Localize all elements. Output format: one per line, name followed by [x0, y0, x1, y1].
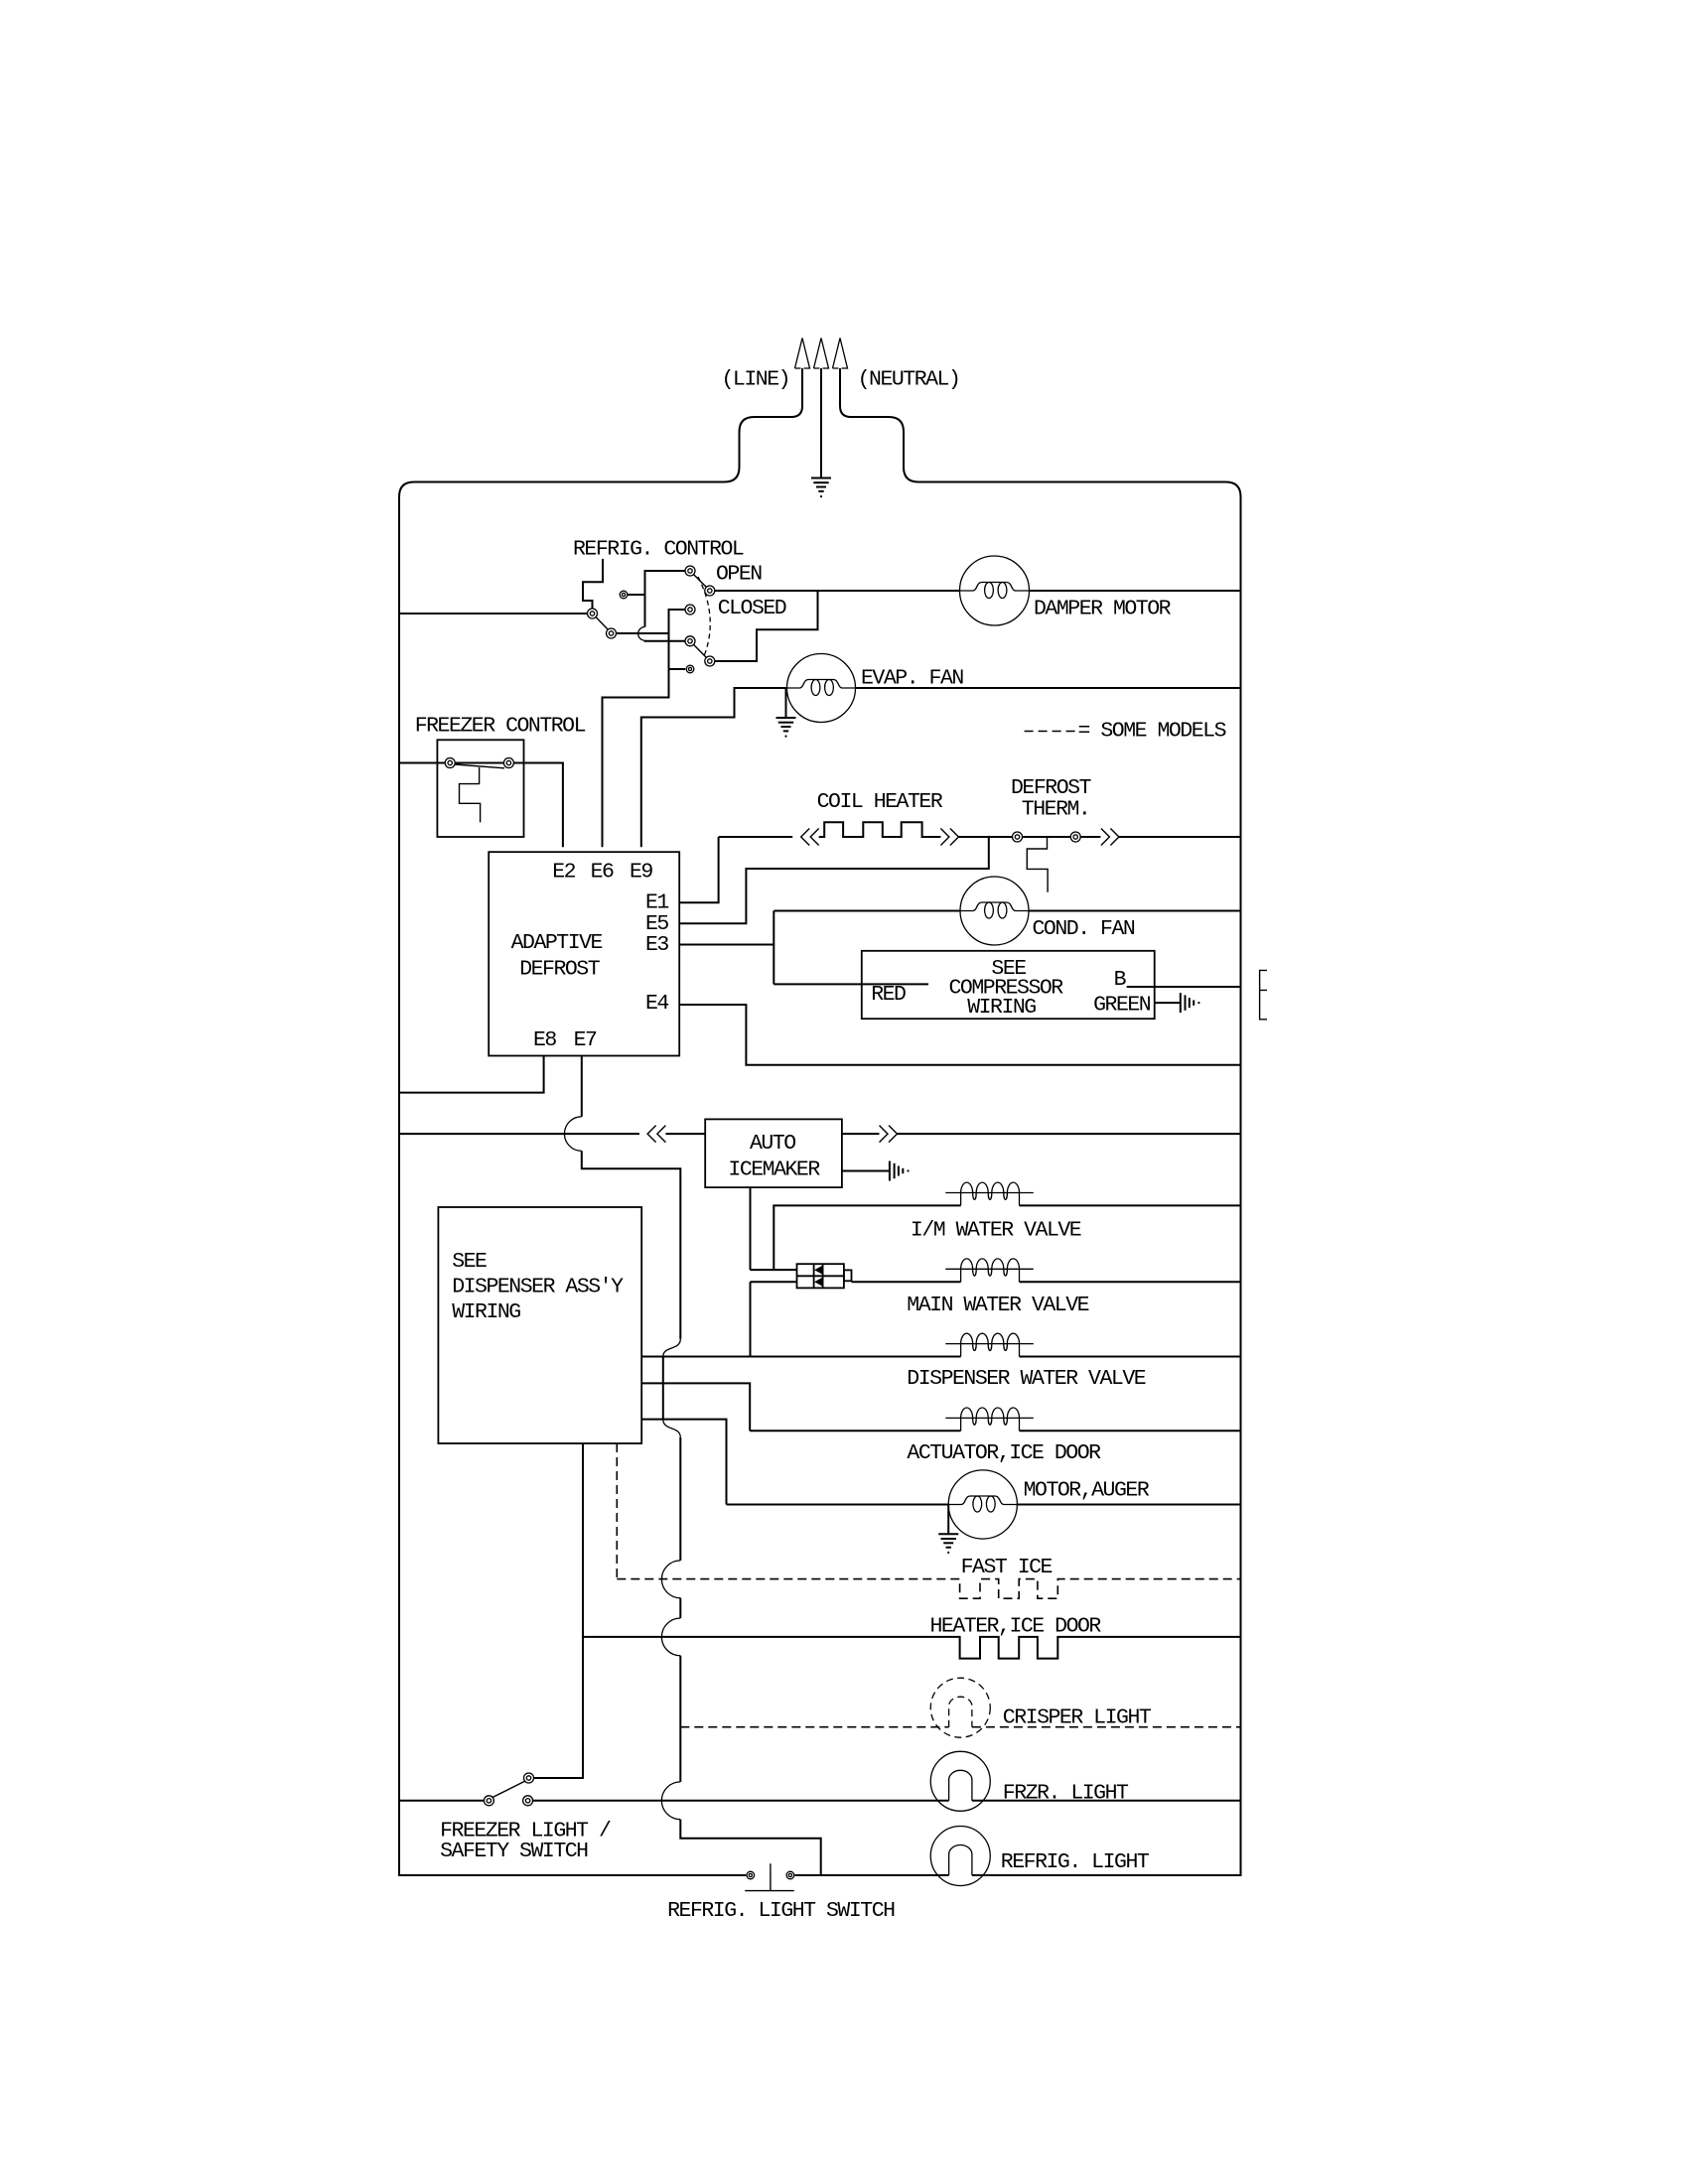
svg-text:E4: E4: [645, 992, 668, 1016]
wire coil heater left segment: [719, 836, 793, 838]
wire auger line left: [727, 1504, 949, 1506]
wire dispenser box bottom to freezer light switch vertical: [534, 1443, 584, 1778]
terminal freezer light switch upper: [524, 1773, 534, 1783]
svg-text:WIRING: WIRING: [452, 1300, 520, 1324]
terminal defrost therm left: [1013, 832, 1023, 842]
evap fan circle: [787, 654, 856, 723]
diode arrow bottom: [814, 1278, 822, 1287]
plug prong LINE: [795, 339, 810, 369]
svg-text:ICEMAKER: ICEMAKER: [728, 1159, 820, 1182]
svg-text:E9: E9: [630, 861, 652, 885]
cond fan coil: [960, 902, 1029, 918]
freezer control box: [437, 740, 523, 837]
terminal T5: [588, 609, 598, 618]
svg-text:RED: RED: [871, 983, 906, 1007]
plug prong ground (middle): [814, 339, 829, 369]
refrig light switch bar: [745, 1890, 794, 1892]
wire left rail to refrig control common T5: [399, 613, 588, 614]
terminal T8 (CLOSED): [705, 656, 715, 666]
wire cond fan line left: [774, 910, 960, 912]
auger motor circle: [948, 1470, 1017, 1539]
svg-text:DISPENSER WATER VALVE: DISPENSER WATER VALVE: [907, 1367, 1145, 1391]
refrig light switch plunger: [770, 1863, 772, 1890]
compressor wiring box: [862, 951, 1155, 1019]
wire cabinet outline top-right with right rail: [851, 417, 1241, 1875]
refrig light filament: [949, 1845, 972, 1875]
wire diode block bottom-left: [751, 1281, 797, 1283]
wire auger ground stub: [947, 1505, 949, 1535]
terminal freezer light switch left: [484, 1796, 493, 1806]
svg-text:COIL HEATER: COIL HEATER: [817, 790, 943, 814]
cond fan circle: [960, 877, 1029, 945]
wire diode block top input: [751, 1269, 797, 1271]
wire cond fan to right rail: [1029, 910, 1241, 912]
terminal freezer control right: [503, 758, 513, 768]
wire left rail through freezer control to E2 pin: [399, 763, 563, 848]
terminal T2 (OPEN): [705, 586, 715, 596]
svg-text:E1: E1: [645, 891, 668, 915]
connector bracket to compressor page: [1260, 970, 1267, 1019]
wire left rail to icemaker (with chevron gap): [399, 1133, 639, 1135]
wire left rail to freezer light switch: [399, 1800, 485, 1802]
svg-text:ACTUATOR,ICE DOOR: ACTUATOR,ICE DOOR: [907, 1441, 1101, 1465]
svg-text:WIRING: WIRING: [967, 996, 1036, 1020]
svg-text:I/M WATER VALVE: I/M WATER VALVE: [911, 1219, 1081, 1243]
chevrons (defrost therm out): [1101, 829, 1119, 846]
svg-text:CRISPER LIGHT: CRISPER LIGHT: [1003, 1706, 1152, 1730]
wire freezer light line: [532, 1800, 949, 1802]
wire bottom line mid segment: [794, 1874, 948, 1876]
wire actuator line: [750, 1430, 960, 1432]
ground (evap fan): [776, 718, 796, 738]
chevrons right (coil heater): [940, 829, 958, 846]
svg-text:FRZR. LIGHT: FRZR. LIGHT: [1003, 1782, 1129, 1806]
svg-text:B: B: [1114, 968, 1127, 992]
svg-text:REFRIG. LIGHT SWITCH: REFRIG. LIGHT SWITCH: [667, 1899, 895, 1923]
wire E4 pin to right rail: [679, 1005, 1240, 1065]
svg-text:FAST ICE: FAST ICE: [961, 1556, 1053, 1579]
adaptive defrost box: [489, 852, 679, 1055]
dispenser assy wiring box: [438, 1207, 641, 1443]
main water valve coil: [945, 1259, 1033, 1282]
frzr light filament: [949, 1770, 972, 1800]
terminal T3: [620, 591, 628, 599]
wire cond fan branch vertical: [773, 911, 774, 985]
wire + resistor coil heater: [819, 822, 941, 837]
wire dispenser valve to right rail: [1020, 1356, 1241, 1358]
svg-text:HEATER,ICE DOOR: HEATER,ICE DOOR: [930, 1615, 1102, 1639]
ground (compressor green): [1181, 993, 1200, 1013]
wire evap fan to right rail: [856, 687, 1241, 689]
plug prong NEUTRAL: [833, 339, 848, 369]
svg-text:E7: E7: [574, 1028, 597, 1052]
switch blade T1-T2: [694, 575, 707, 588]
auto icemaker box: [705, 1119, 842, 1187]
svg-text:COND. FAN: COND. FAN: [1033, 917, 1135, 941]
wire evap fan ground stub: [785, 688, 787, 718]
wire GREEN lead to ground: [1155, 1002, 1181, 1004]
switch blade T7-T8: [694, 645, 707, 658]
dispenser water valve coil: [945, 1333, 1033, 1356]
wire main water valve line: [852, 1281, 961, 1283]
svg-text:REFRIG. CONTROL: REFRIG. CONTROL: [573, 538, 744, 562]
svg-text:GREEN: GREEN: [1093, 994, 1151, 1018]
svg-text:FREEZER CONTROL: FREEZER CONTROL: [415, 715, 586, 739]
terminal T6: [607, 628, 617, 638]
crisper light dashed line: [680, 1726, 1240, 1728]
svg-text:REFRIG. LIGHT: REFRIG. LIGHT: [1001, 1850, 1150, 1874]
wire main valve to right rail: [1020, 1281, 1241, 1283]
freezer light switch blade: [492, 1781, 526, 1798]
wire CLOSED contact T8 staircase to damper line: [715, 591, 818, 661]
wire refrig control T1 with hop to T7: [645, 571, 686, 627]
wire icemaker out (with chevron gap): [842, 1133, 880, 1135]
svg-text:OPEN: OPEN: [716, 563, 762, 587]
heater ice door line with resistor: [583, 1637, 1241, 1659]
svg-text:(LINE): (LINE): [722, 368, 790, 392]
svg-text:MAIN WATER VALVE: MAIN WATER VALVE: [907, 1294, 1088, 1317]
diode arrow top: [814, 1266, 822, 1275]
switch linkage dashed arc: [698, 577, 710, 656]
svg-text:ADAPTIVE: ADAPTIVE: [511, 931, 603, 955]
wire defrost therm to right rail: [1119, 836, 1241, 838]
terminal freezer light switch right: [523, 1796, 533, 1806]
freezer control blade: [455, 764, 504, 768]
svg-text:SEE: SEE: [452, 1250, 487, 1274]
wire damper motor to right rail: [1030, 590, 1241, 592]
wire icemaker ground lead: [842, 1170, 890, 1172]
wire icemaker bottom pin to diode block: [750, 1187, 752, 1270]
crisper light filament: [949, 1697, 972, 1726]
wire frzr light to right rail: [972, 1800, 1241, 1802]
frzr light circle: [930, 1751, 990, 1811]
ground (power cord): [811, 478, 831, 498]
svg-text:DAMPER MOTOR: DAMPER MOTOR: [1034, 598, 1172, 621]
svg-text:E3: E3: [645, 933, 668, 957]
wire E7 pin long run with hops: [581, 1056, 583, 1117]
diode block: [797, 1264, 852, 1288]
wire refrig control T3 stub: [628, 594, 645, 596]
wire middle prong to ground: [820, 368, 822, 478]
svg-text:= SOME MODELS: = SOME MODELS: [1078, 720, 1226, 744]
damper motor coil: [960, 583, 1029, 599]
wire dispenser box to actuator line: [641, 1383, 750, 1431]
svg-text:E8: E8: [533, 1028, 556, 1052]
ground (auger motor): [938, 1534, 958, 1554]
wire I/M valve line left + down to diode: [774, 1205, 960, 1270]
wire LINE prong stem: [791, 368, 802, 417]
svg-text:E2: E2: [552, 861, 575, 885]
svg-text:DEFROST: DEFROST: [1011, 776, 1092, 800]
freezer control bellows element: [460, 767, 481, 822]
wire E5 pin to heater line: [679, 837, 989, 923]
wire stub from refrig control label: [583, 559, 603, 609]
svg-text:EVAP. FAN: EVAP. FAN: [861, 667, 963, 691]
wire E3 pin to cond fan branch: [679, 944, 774, 946]
svg-text:AUTO: AUTO: [750, 1132, 795, 1156]
svg-text:DISPENSER ASS'Y: DISPENSER ASS'Y: [452, 1276, 624, 1299]
wire dispenser box to auger line: [641, 1420, 726, 1505]
terminal T1: [685, 566, 695, 576]
chevrons (icemaker out): [880, 1126, 898, 1143]
chevrons (icemaker in): [647, 1126, 665, 1143]
wire RED lead to compressor: [774, 983, 928, 985]
auger motor coil: [948, 1496, 1017, 1512]
terminal freezer control left: [445, 758, 455, 768]
wire B lead to right rail: [1127, 986, 1241, 988]
wire actuator to right rail: [1020, 1430, 1241, 1432]
wire dispenser valve line: [641, 1356, 960, 1358]
wire refrig control T9 stub: [669, 668, 686, 670]
wire refrig control T4 to E6 pin: [603, 610, 686, 847]
wire NEUTRAL prong stem: [840, 368, 851, 417]
refrig light circle: [930, 1827, 990, 1886]
wire dashed from dispenser box bottom to fast ice: [616, 1443, 618, 1579]
svg-text:E6: E6: [591, 861, 614, 885]
terminal defrost therm right: [1070, 832, 1080, 842]
terminal T7: [685, 636, 695, 646]
wire auger motor to right rail: [1017, 1504, 1240, 1506]
terminal refrig light switch right: [786, 1871, 794, 1879]
legend dashed sample: [1025, 731, 1079, 733]
terminal T4: [685, 605, 695, 614]
defrost therm bimetal staircase: [1027, 837, 1048, 892]
svg-text:(NEUTRAL): (NEUTRAL): [858, 368, 960, 392]
svg-text:THERM.: THERM.: [1022, 798, 1090, 822]
switch blade T5-T6: [595, 616, 610, 631]
wire E9 pin to evap fan line: [641, 688, 787, 847]
wire coil heater to defrost therm: [958, 836, 1100, 838]
actuator ice door coil: [945, 1408, 1033, 1431]
wire diode bottom to dispenser line: [750, 1282, 752, 1356]
fast ice dashed line with resistor: [617, 1579, 1240, 1599]
wire E1 pin to coil heater line: [679, 837, 718, 902]
svg-text:SAFETY SWITCH: SAFETY SWITCH: [440, 1840, 588, 1863]
wire refrig control T6 output: [617, 632, 669, 634]
chevrons left (coil heater): [801, 829, 819, 846]
svg-text:DEFROST: DEFROST: [519, 958, 601, 982]
crisper light circle (dashed): [930, 1678, 990, 1737]
wire E8 pin to left rail: [399, 1056, 544, 1093]
wire OPEN contact T2 to damper motor line: [715, 590, 960, 592]
evap fan coil: [787, 680, 856, 696]
svg-text:CLOSED: CLOSED: [718, 597, 786, 620]
terminal T9: [686, 665, 694, 673]
I/M water valve coil: [945, 1182, 1033, 1205]
damper motor circle: [960, 556, 1030, 625]
wire cabinet outline top-left with left rail: [399, 417, 791, 1875]
terminal refrig light switch left: [747, 1871, 755, 1879]
ground (icemaker): [890, 1161, 910, 1181]
svg-text:MOTOR,AUGER: MOTOR,AUGER: [1024, 1479, 1150, 1503]
wire I/M valve to right rail: [1020, 1204, 1241, 1206]
